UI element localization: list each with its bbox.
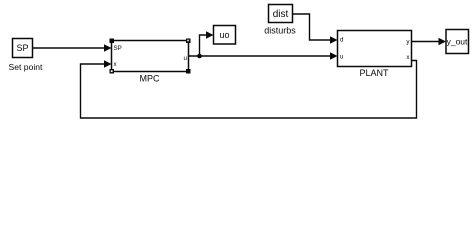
svg-text:PLANT: PLANT xyxy=(359,68,389,78)
svg-text:uo: uo xyxy=(219,30,229,40)
svg-text:dist: dist xyxy=(273,9,289,20)
svg-text:u: u xyxy=(340,54,344,61)
svg-text:SP: SP xyxy=(114,45,122,52)
svg-text:disturbs: disturbs xyxy=(264,26,296,36)
svg-text:y_out: y_out xyxy=(447,37,468,47)
svg-text:u: u xyxy=(184,55,188,62)
svg-text:SP: SP xyxy=(16,43,28,53)
svg-text:Set point: Set point xyxy=(9,62,44,72)
svg-text:d: d xyxy=(340,37,344,44)
svg-text:MPC: MPC xyxy=(140,74,161,84)
